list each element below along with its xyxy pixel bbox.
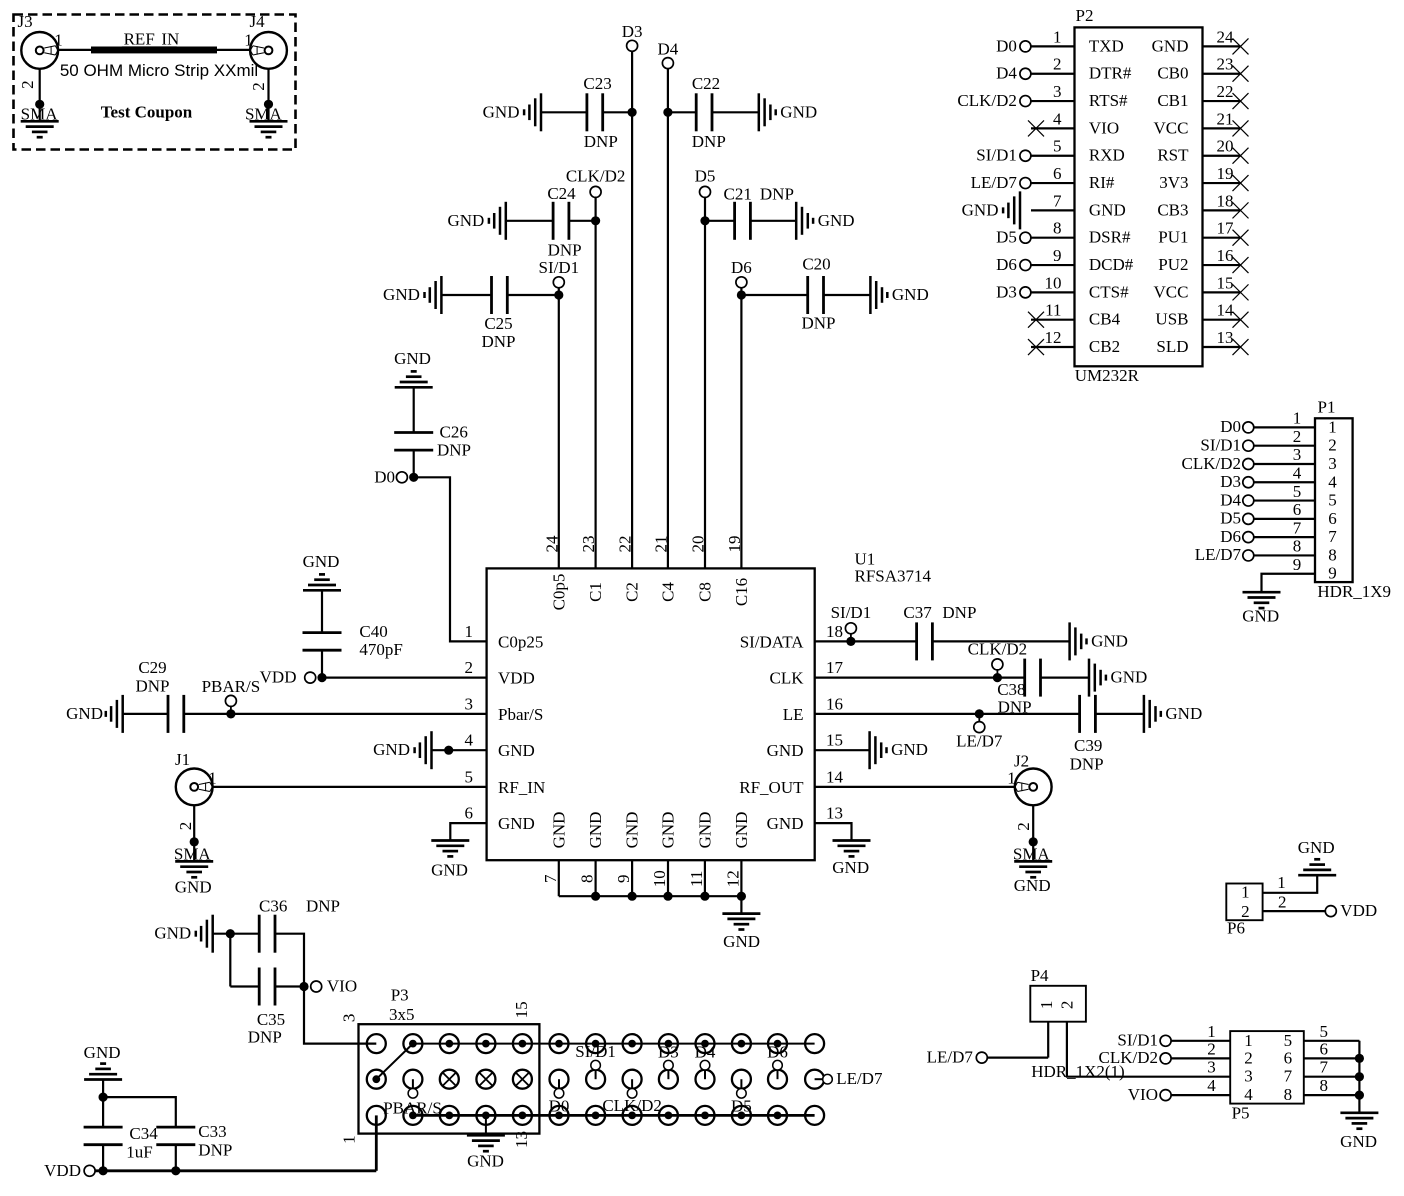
ground P1 pin 9 — [1243, 591, 1281, 594]
wire U1 pin6 to ground — [450, 823, 486, 840]
svg-text:CLK/D2: CLK/D2 — [1182, 454, 1242, 473]
capacitor C38 — [1023, 659, 1026, 697]
ground at U1 pin4 — [430, 731, 433, 769]
svg-text:DNP: DNP — [548, 241, 582, 260]
svg-text:GND: GND — [586, 812, 605, 849]
junction GND bus — [700, 892, 709, 901]
capacitor C35 — [258, 968, 261, 1006]
svg-text:20: 20 — [688, 536, 707, 553]
P2 pin 2 wire — [1031, 73, 1075, 75]
svg-text:D3: D3 — [1220, 472, 1241, 491]
svg-text:GND: GND — [732, 812, 751, 849]
svg-text:GND: GND — [467, 1151, 504, 1170]
svg-text:CLK: CLK — [770, 669, 805, 688]
wire D4 to C22 — [668, 111, 696, 113]
wire C34 to VDD rail — [102, 1145, 104, 1171]
svg-text:7: 7 — [1053, 191, 1062, 210]
svg-text:UM232R: UM232R — [1075, 366, 1140, 385]
svg-text:23: 23 — [1217, 55, 1234, 74]
svg-text:3: 3 — [1244, 1067, 1253, 1086]
wire J3 pin2 to ground — [39, 69, 41, 121]
svg-text:GND: GND — [1091, 631, 1128, 650]
P1 pin 6 wire — [1254, 518, 1315, 520]
P2 pin 14 wire — [1203, 319, 1241, 321]
P3 net CLK/D2 — [623, 1070, 642, 1089]
svg-text:PU1: PU1 — [1158, 228, 1188, 247]
junction D4-C22 — [663, 108, 672, 117]
svg-text:VDD: VDD — [498, 669, 535, 688]
svg-text:24: 24 — [542, 535, 561, 553]
svg-text:RF_OUT: RF_OUT — [739, 778, 804, 797]
svg-text:14: 14 — [826, 767, 844, 786]
svg-text:6: 6 — [1284, 1048, 1293, 1067]
svg-text:C38: C38 — [997, 680, 1025, 699]
svg-text:D0: D0 — [996, 36, 1017, 55]
svg-text:VIO: VIO — [327, 977, 357, 996]
svg-text:2: 2 — [1014, 822, 1033, 831]
svg-text:1: 1 — [1053, 27, 1062, 46]
svg-text:6: 6 — [1320, 1039, 1329, 1058]
junction D0 — [409, 473, 418, 482]
svg-text:C36: C36 — [259, 897, 287, 916]
svg-text:6: 6 — [465, 804, 474, 823]
node VIO at P5 pin 4 — [1160, 1090, 1171, 1101]
svg-text:C25: C25 — [484, 314, 512, 333]
svg-text:7: 7 — [1284, 1067, 1293, 1086]
wire P3 top bus — [413, 1043, 815, 1045]
svg-text:2: 2 — [1244, 1048, 1253, 1067]
svg-text:1: 1 — [1277, 873, 1286, 892]
svg-text:D6: D6 — [767, 1043, 788, 1062]
svg-text:GND: GND — [175, 877, 212, 896]
svg-text:7: 7 — [1293, 518, 1302, 537]
node VDD bottom — [84, 1165, 95, 1176]
P5 pin 2 wire — [1171, 1057, 1230, 1059]
svg-text:11: 11 — [687, 871, 706, 887]
svg-text:LE/D7: LE/D7 — [927, 1048, 974, 1067]
svg-text:GND: GND — [832, 858, 869, 877]
wire D4 vertical to U1 pin 21 — [667, 69, 669, 569]
ground J4 — [250, 120, 288, 123]
P5 pin 8 wire — [1304, 1094, 1360, 1096]
svg-text:13: 13 — [1217, 328, 1234, 347]
svg-text:GND: GND — [154, 924, 191, 943]
ground U1 bottom — [722, 912, 760, 915]
svg-text:5: 5 — [1320, 1022, 1329, 1041]
P1 pin 5 wire — [1254, 499, 1315, 501]
svg-text:4: 4 — [465, 731, 474, 750]
svg-text:SI/D1: SI/D1 — [831, 603, 872, 622]
ground P6 pin 1 — [1298, 874, 1336, 877]
node D6 at P1 pin 7 — [1243, 532, 1254, 543]
svg-text:470pF: 470pF — [359, 640, 402, 659]
svg-text:VCC: VCC — [1154, 118, 1189, 137]
junction GND bus — [663, 892, 672, 901]
svg-text:3: 3 — [1293, 445, 1302, 464]
node LE/D7 at pin16 — [978, 714, 980, 722]
svg-text:GND: GND — [431, 861, 468, 880]
svg-text:Test Coupon: Test Coupon — [101, 103, 193, 122]
svg-text:D3: D3 — [658, 1043, 679, 1062]
wire D5 to C21 — [705, 220, 735, 222]
svg-text:GND: GND — [892, 285, 929, 304]
capacitor C36 — [258, 915, 261, 953]
no-connect P2 pin 19 — [1233, 175, 1249, 191]
svg-text:24: 24 — [1217, 27, 1235, 46]
ground at C23 — [540, 93, 543, 131]
svg-text:C33: C33 — [198, 1122, 226, 1141]
no-connect P2 pin 15 — [1233, 284, 1249, 300]
svg-text:9: 9 — [614, 875, 633, 884]
svg-text:USB: USB — [1155, 310, 1188, 329]
svg-text:6: 6 — [1328, 509, 1337, 528]
svg-text:16: 16 — [826, 694, 843, 713]
svg-text:C0p5: C0p5 — [549, 574, 568, 611]
svg-text:18: 18 — [826, 622, 843, 641]
svg-text:1: 1 — [1241, 882, 1250, 901]
node VIO — [311, 981, 322, 992]
svg-text:C24: C24 — [547, 184, 576, 203]
no-connect P2 pin 24 — [1233, 38, 1249, 54]
svg-text:SI/D1: SI/D1 — [538, 258, 579, 277]
svg-text:DNP: DNP — [306, 897, 340, 916]
wire J3 pin1 to microstrip — [58, 49, 92, 51]
svg-text:CLK/D2: CLK/D2 — [957, 91, 1017, 110]
capacitor C20 — [806, 276, 809, 314]
svg-text:GND: GND — [498, 741, 535, 760]
wire D6 to C20 — [741, 294, 807, 296]
svg-text:GND: GND — [394, 349, 431, 368]
svg-text:LE/D7: LE/D7 — [836, 1069, 883, 1088]
no-connect P2 pin 14 — [1233, 312, 1249, 328]
P2 pin 11 wire — [1031, 319, 1075, 321]
svg-text:PBAR/S: PBAR/S — [202, 677, 261, 696]
P3 top row pins — [367, 1034, 386, 1053]
svg-text:4: 4 — [1207, 1076, 1216, 1095]
P3 bottom row pins — [367, 1106, 386, 1125]
svg-text:2: 2 — [1241, 902, 1250, 921]
svg-text:D4: D4 — [695, 1043, 716, 1062]
svg-text:1: 1 — [244, 31, 253, 50]
no-connect P2 pin 18 — [1233, 202, 1249, 218]
no-connect P2 pin 13 — [1233, 339, 1249, 355]
svg-text:GND: GND — [66, 704, 103, 723]
junction J4 pin2 — [264, 100, 273, 109]
P2 pin 19 wire — [1203, 182, 1241, 184]
ground below P3 — [467, 1134, 505, 1137]
svg-text:DNP: DNP — [801, 314, 835, 333]
svg-text:DNP: DNP — [584, 132, 618, 151]
wire PBAR/S to C29 — [184, 713, 231, 715]
capacitor C23 — [586, 93, 589, 131]
svg-text:LE/D7: LE/D7 — [1195, 545, 1242, 564]
ground at C24 — [505, 202, 508, 240]
svg-text:GND: GND — [383, 285, 420, 304]
svg-text:GND: GND — [891, 740, 928, 759]
svg-text:6: 6 — [1293, 500, 1302, 519]
svg-text:C23: C23 — [583, 74, 611, 93]
P2 pin 17 wire — [1203, 237, 1241, 239]
junction C36 — [226, 929, 235, 938]
wire C26 to D0 — [413, 450, 415, 477]
svg-text:C0p25: C0p25 — [498, 632, 543, 651]
P5 pin 6 wire — [1304, 1057, 1360, 1059]
capacitor C24 — [552, 202, 555, 240]
no-connect P2 pin 12 — [1028, 339, 1044, 355]
junction SI/D1 — [846, 637, 855, 646]
svg-text:3x5: 3x5 — [389, 1005, 415, 1024]
svg-text:PU2: PU2 — [1158, 255, 1188, 274]
wire U1 pin2 to node VDD — [322, 676, 487, 678]
wire U1 pin3 to C29 — [231, 713, 487, 715]
connector J3 SMA symbol — [21, 32, 58, 69]
svg-text:15: 15 — [826, 731, 843, 750]
svg-text:C2: C2 — [623, 582, 642, 602]
P2 pin 13 wire — [1203, 346, 1241, 348]
P2 pin 10 wire — [1031, 291, 1075, 293]
svg-text:GND: GND — [1242, 607, 1279, 626]
svg-text:22: 22 — [1217, 82, 1234, 101]
node D6 at P2 pin 9 — [1020, 260, 1031, 271]
P1 pin 8 wire — [1254, 554, 1315, 556]
P2 pin 7 wire — [1031, 209, 1075, 211]
connector J1 SMA — [176, 769, 213, 806]
svg-text:GND: GND — [1111, 668, 1148, 687]
U1 bottom GND pin wires 7-12 — [558, 860, 560, 896]
svg-text:3V3: 3V3 — [1159, 173, 1188, 192]
ground at C38 — [1088, 659, 1091, 697]
svg-text:GND: GND — [498, 814, 535, 833]
junction C23-D3 — [628, 108, 637, 117]
svg-text:2: 2 — [1328, 436, 1337, 455]
node D3 at P1 pin 4 — [1243, 477, 1254, 488]
svg-text:GND: GND — [373, 740, 410, 759]
svg-text:DNP: DNP — [481, 332, 515, 351]
ground at C25 — [440, 276, 443, 314]
svg-text:1: 1 — [1244, 1031, 1253, 1050]
node D0 at P1 pin 1 — [1243, 422, 1254, 433]
capacitor C26 — [394, 431, 433, 434]
junction P5 bus — [1355, 1072, 1364, 1081]
svg-text:SI/DATA: SI/DATA — [740, 632, 805, 651]
node D4 at P2 pin 2 — [1020, 68, 1031, 79]
svg-text:2: 2 — [1207, 1039, 1216, 1058]
no-connect P2 pin 4 — [1028, 120, 1044, 136]
wire U1 pin15 to ground — [815, 749, 870, 751]
svg-text:17: 17 — [1217, 219, 1235, 238]
test coupon dashed border — [14, 15, 296, 150]
ground at C37 — [1068, 622, 1071, 660]
no-connect P2 pin 22 — [1233, 93, 1249, 109]
wire C38 to ground — [1041, 676, 1090, 678]
svg-text:GND: GND — [623, 812, 642, 849]
P1 pin 9 wire to ground — [1262, 574, 1316, 592]
svg-text:CB0: CB0 — [1157, 64, 1188, 83]
P2 pin 18 wire — [1203, 209, 1241, 211]
node D5 at P1 pin 6 — [1243, 513, 1254, 524]
svg-text:GND: GND — [962, 200, 999, 219]
svg-text:C26: C26 — [440, 422, 468, 441]
svg-text:2: 2 — [1053, 55, 1062, 74]
svg-text:GND: GND — [1298, 838, 1335, 857]
P3 net D0 — [550, 1070, 569, 1089]
svg-text:8: 8 — [1284, 1085, 1293, 1104]
P6 pin 2 wire — [1263, 910, 1326, 912]
ground J1 — [175, 860, 213, 863]
svg-text:VIO: VIO — [1089, 118, 1119, 137]
svg-text:7: 7 — [1328, 527, 1337, 546]
svg-text:IN: IN — [161, 29, 179, 48]
wire C35 to VIO — [275, 985, 304, 987]
svg-text:DSR#: DSR# — [1089, 228, 1131, 247]
svg-text:8: 8 — [1293, 537, 1302, 556]
wire C33 to VDD rail — [175, 1145, 177, 1171]
ground U1 pin15 — [868, 731, 871, 769]
svg-text:DNP: DNP — [942, 603, 976, 622]
P5 pin 1 wire — [1171, 1040, 1230, 1042]
svg-text:CB2: CB2 — [1089, 337, 1120, 356]
svg-text:C1: C1 — [586, 582, 605, 602]
svg-text:7: 7 — [541, 874, 560, 883]
connector P1 body — [1315, 418, 1353, 582]
connector P5 body — [1230, 1031, 1304, 1104]
P6 pin 1 wire to ground — [1263, 875, 1318, 893]
svg-text:C16: C16 — [732, 578, 751, 606]
wire LE/D7 to P4 pin 1 — [987, 1056, 1048, 1058]
svg-text:2: 2 — [249, 82, 268, 91]
svg-text:RFSA3714: RFSA3714 — [855, 567, 932, 586]
svg-text:C22: C22 — [692, 74, 720, 93]
svg-text:1: 1 — [465, 622, 474, 641]
svg-text:J1: J1 — [175, 750, 190, 769]
svg-text:D6: D6 — [1220, 527, 1241, 546]
P2 pin 6 wire — [1031, 182, 1075, 184]
node CLK/D2 at P2 pin 3 — [1020, 96, 1031, 107]
node SI/D1 at P1 pin 2 — [1243, 440, 1254, 451]
svg-text:11: 11 — [1045, 301, 1061, 320]
P2 pin 21 wire — [1203, 127, 1241, 129]
node CLK/D2 at pin17 — [996, 670, 998, 678]
svg-text:D0: D0 — [549, 1097, 570, 1116]
node SI/D1 at pin18 — [850, 634, 852, 642]
junction D5-C21 — [700, 216, 709, 225]
wire bottom GND bus — [559, 895, 742, 897]
svg-text:SLD: SLD — [1156, 337, 1188, 356]
svg-text:P1: P1 — [1318, 397, 1336, 416]
ground J3 — [21, 120, 59, 123]
node LE/D7 at P1 pin 8 — [1243, 550, 1254, 561]
svg-text:3: 3 — [1207, 1058, 1216, 1077]
no-connect P2 pin 20 — [1233, 148, 1249, 164]
svg-text:3: 3 — [465, 694, 474, 713]
P3 net D4 — [696, 1070, 715, 1089]
junction P5 bus — [1355, 1054, 1364, 1063]
ground U1 pin13 — [833, 839, 871, 842]
svg-text:GND: GND — [723, 932, 760, 951]
svg-text:SI/D1: SI/D1 — [575, 1042, 616, 1061]
P2 pin 16 wire — [1203, 264, 1241, 266]
svg-text:CB1: CB1 — [1157, 91, 1188, 110]
svg-text:GND: GND — [659, 812, 678, 849]
svg-text:CB3: CB3 — [1157, 200, 1188, 219]
svg-text:5: 5 — [1328, 491, 1337, 510]
connector P4 body — [1030, 986, 1086, 1022]
P3 net D6 — [768, 1070, 787, 1089]
no-connect P2 pin 21 — [1233, 120, 1249, 136]
svg-text:4: 4 — [1053, 109, 1062, 128]
ground U1 pin6 — [431, 839, 469, 842]
wire C20 to ground — [824, 294, 871, 296]
ground at C36 — [211, 915, 214, 953]
wire VDD riser to P3 — [375, 1115, 378, 1170]
node LE/D7 at P2 pin 6 — [1020, 178, 1031, 189]
svg-text:2: 2 — [465, 658, 474, 677]
capacitor C21 — [733, 202, 736, 240]
P3 net D3 — [659, 1070, 678, 1089]
wire VDD rail — [95, 1169, 376, 1172]
connector P2 body — [1075, 27, 1203, 366]
wire ground to C23 — [541, 111, 587, 113]
P1 pin 7 wire — [1254, 536, 1315, 538]
microstrip transmission line REF IN — [91, 47, 217, 54]
wire J1 pin2 to ground — [193, 805, 195, 861]
svg-text:8: 8 — [1320, 1076, 1329, 1095]
wire C40 to ground — [321, 590, 323, 632]
wire D6 vertical to U1 pin 19 — [740, 288, 742, 569]
junction D6-C20 — [737, 290, 746, 299]
junction C33-VDD — [171, 1166, 180, 1175]
svg-text:1: 1 — [1207, 1022, 1216, 1041]
svg-text:RF_IN: RF_IN — [498, 778, 545, 797]
svg-text:GND: GND — [1340, 1132, 1377, 1151]
svg-text:2: 2 — [1057, 1001, 1076, 1010]
svg-text:5: 5 — [1053, 137, 1062, 156]
P1 pin 3 wire — [1254, 463, 1315, 465]
svg-text:P5: P5 — [1232, 1103, 1250, 1122]
svg-text:SI/D1: SI/D1 — [1117, 1031, 1158, 1050]
svg-text:C20: C20 — [802, 255, 830, 274]
connector P6 body — [1226, 884, 1262, 921]
P2 pin 20 wire — [1203, 155, 1241, 157]
svg-text:GND: GND — [1165, 704, 1202, 723]
wire C36 to VIO riser — [275, 934, 304, 987]
ground above C40 — [303, 589, 341, 592]
svg-text:19: 19 — [1217, 164, 1234, 183]
svg-text:3: 3 — [1328, 454, 1337, 473]
P5 pin 7 wire — [1304, 1076, 1360, 1078]
svg-text:P3: P3 — [391, 986, 409, 1005]
wire C22 to ground — [712, 111, 759, 113]
wire D3 vertical to U1 pin 22 — [631, 51, 633, 568]
svg-text:1: 1 — [54, 31, 63, 50]
P1 pin 2 wire — [1254, 445, 1315, 447]
P2 pin 15 wire — [1203, 291, 1241, 293]
svg-text:GND: GND — [84, 1043, 121, 1062]
svg-text:1: 1 — [1293, 409, 1302, 428]
wire VIO to P3 pin 3 — [304, 987, 376, 1044]
wire CLK/D2 vertical to U1 pin 23 — [594, 198, 596, 569]
svg-text:50 OHM Micro Strip XXmil: 50 OHM Micro Strip XXmil — [60, 61, 258, 80]
svg-text:CLK/D2: CLK/D2 — [968, 639, 1028, 658]
junction GND bus — [591, 892, 600, 901]
svg-text:1: 1 — [339, 1135, 358, 1144]
svg-text:2: 2 — [176, 822, 195, 831]
svg-text:Pbar/S: Pbar/S — [498, 705, 543, 724]
svg-text:J2: J2 — [1014, 751, 1029, 770]
capacitor C39 — [1078, 695, 1081, 733]
svg-text:DTR#: DTR# — [1089, 64, 1132, 83]
svg-text:1: 1 — [1037, 1001, 1056, 1010]
